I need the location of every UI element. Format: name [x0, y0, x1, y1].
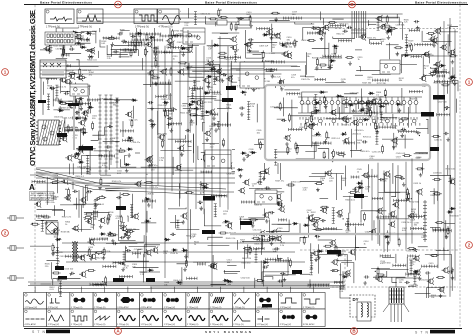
junction — [70, 74, 71, 75]
label IC ref 18 — [202, 230, 215, 234]
pin row — [405, 35, 408, 53]
junction — [385, 95, 386, 96]
junction — [90, 34, 91, 35]
wire — [427, 275, 429, 298]
junction — [157, 77, 158, 78]
svg-text:C319 33k: C319 33k — [46, 202, 56, 204]
wire — [385, 174, 408, 192]
resistor R304 — [120, 215, 122, 224]
junction — [126, 41, 127, 42]
resistor R315 — [369, 109, 371, 118]
transistor Q201 — [147, 69, 154, 76]
junction — [390, 29, 391, 30]
transistor Q502 — [244, 41, 251, 48]
wire — [169, 28, 171, 39]
ground — [102, 256, 106, 260]
ground — [374, 275, 378, 279]
junction — [70, 274, 71, 275]
pin row — [330, 24, 346, 27]
capacitor C613 — [364, 275, 369, 278]
wire — [372, 60, 391, 75]
flyback leads up — [396, 278, 420, 287]
resistor R315 — [31, 223, 40, 225]
wire — [305, 142, 316, 152]
ground — [451, 276, 455, 280]
capacitor C514 — [50, 42, 55, 45]
capacitor C311 — [153, 50, 158, 53]
ground — [314, 257, 318, 261]
svg-text:C209 33k: C209 33k — [396, 25, 406, 27]
section dashed line2 — [344, 250, 346, 292]
ground — [402, 182, 406, 186]
pin row — [345, 223, 363, 226]
ground — [271, 236, 275, 240]
wire — [254, 278, 256, 288]
margin connector — [7, 246, 24, 250]
capacitor C604 — [170, 233, 175, 236]
capacitor C415 — [197, 201, 202, 204]
bus wire bottom2 — [150, 286, 345, 288]
wire — [86, 187, 88, 201]
resistor R601 — [411, 43, 413, 52]
diode D602 — [396, 103, 402, 106]
resistor R509 — [279, 102, 281, 111]
wire — [208, 245, 230, 247]
junction — [321, 67, 322, 68]
transistor Q603 — [132, 213, 139, 220]
junction — [65, 77, 66, 78]
label IC ref 12 — [354, 194, 364, 198]
wire — [248, 43, 277, 52]
wire — [103, 99, 132, 100]
wire — [370, 39, 382, 44]
diode D705 — [136, 32, 142, 35]
junction — [336, 48, 337, 49]
transistor Q304 — [325, 170, 332, 177]
svg-text:R702 330: R702 330 — [222, 222, 232, 224]
transistor Q201 — [316, 29, 323, 36]
pin row — [381, 215, 397, 218]
ground — [315, 66, 319, 70]
bus wire vertical right — [389, 173, 391, 241]
diode D507 — [58, 101, 64, 104]
wire — [265, 257, 288, 275]
transistor Q504 — [266, 28, 273, 35]
capacitor C505 — [248, 38, 253, 41]
pin row — [307, 32, 325, 35]
resistor R605 — [312, 218, 321, 220]
transistor Q601 — [76, 145, 83, 152]
pin row — [243, 222, 253, 225]
connector CN202 — [105, 95, 108, 175]
ground — [51, 252, 55, 256]
svg-text:R306 4.7k: R306 4.7k — [57, 86, 67, 88]
diode D208 — [75, 117, 81, 120]
wire — [211, 284, 226, 286]
label IC ref 20 — [262, 304, 272, 308]
wire — [232, 170, 235, 172]
diode D602 — [149, 36, 155, 39]
resistor R207 — [259, 141, 261, 150]
module box — [70, 84, 88, 96]
svg-text:R612 1k: R612 1k — [337, 33, 346, 35]
svg-text:C311 330: C311 330 — [270, 107, 280, 109]
transistor Q201 — [75, 33, 82, 40]
wire — [393, 133, 395, 150]
transistor Q310 — [166, 37, 173, 44]
resistor R315 — [335, 244, 337, 253]
capacitor C704 — [183, 37, 188, 40]
oscillogram box B2 row2 — [47, 309, 70, 327]
transistor Q310 — [225, 222, 232, 229]
junction — [453, 52, 454, 53]
junction — [181, 45, 182, 46]
wire — [187, 8, 189, 18]
wire — [408, 285, 416, 287]
wire — [179, 10, 182, 12]
ground — [147, 203, 151, 207]
bus wire horizontal — [40, 65, 297, 67]
bus wire vertical — [227, 46, 229, 210]
DY horizontal coil — [361, 303, 362, 317]
resistor R416 — [121, 193, 130, 195]
wire — [340, 263, 342, 286]
wire — [353, 115, 371, 117]
diode D303 — [450, 207, 456, 210]
pin row — [339, 39, 352, 42]
resistor R511 — [384, 89, 386, 98]
wire — [382, 138, 413, 140]
svg-text:1 TP(ba) (V): 1 TP(ba) (V) — [280, 307, 292, 309]
transistor Q310 — [331, 259, 338, 266]
transistor Q701 — [379, 23, 386, 30]
junction — [262, 281, 263, 282]
resistor R601 — [377, 267, 379, 276]
resistor R612 — [42, 216, 51, 218]
ground — [405, 196, 409, 200]
pin row — [393, 264, 406, 267]
transistor Q201 — [307, 123, 314, 130]
diode D705 — [342, 275, 348, 278]
transistor Q504 — [180, 212, 187, 219]
wire — [207, 45, 233, 47]
pin row — [345, 97, 348, 107]
wire — [204, 209, 221, 226]
ground — [111, 42, 115, 46]
junction — [328, 137, 329, 138]
svg-text:R318 100: R318 100 — [450, 216, 460, 218]
label IC ref 16 — [222, 98, 233, 102]
resistor R511 — [108, 213, 110, 222]
capacitor C607 — [269, 211, 274, 214]
wire — [168, 79, 170, 98]
resistor R612 — [330, 270, 339, 272]
wire — [318, 239, 333, 241]
svg-text:2: 2 — [468, 243, 471, 248]
svg-text:STN: STN — [32, 330, 46, 334]
pin row — [398, 130, 416, 133]
bus wire vertical right — [377, 163, 379, 244]
diode D602 — [358, 186, 364, 189]
diode D507 — [386, 29, 392, 32]
wire — [337, 260, 352, 262]
svg-text:C514 47u: C514 47u — [272, 37, 282, 39]
pin row — [373, 102, 389, 105]
transistor Q601 — [242, 179, 249, 186]
pin row — [210, 113, 218, 116]
ground — [320, 37, 324, 41]
resistor R412 — [131, 119, 133, 128]
module box — [255, 190, 277, 204]
wire — [311, 23, 313, 24]
svg-text:R509 4.7k: R509 4.7k — [112, 181, 122, 183]
wire — [170, 221, 183, 223]
wire — [92, 127, 104, 135]
ground — [214, 128, 218, 132]
ground — [376, 130, 380, 134]
pin row — [50, 37, 53, 50]
wire — [344, 93, 357, 95]
ground — [170, 128, 174, 132]
capacitor C704 — [281, 119, 286, 122]
junction — [286, 46, 287, 47]
capacitor C708 — [415, 131, 420, 134]
junction — [283, 119, 284, 120]
resistor R706 — [398, 238, 400, 247]
wire — [444, 223, 455, 225]
transistor Q601 — [65, 154, 72, 161]
label IC ref 17 — [203, 196, 215, 201]
wire — [441, 27, 458, 32]
pin row — [163, 109, 173, 112]
wire — [139, 271, 160, 273]
ground — [242, 157, 246, 161]
junction — [98, 254, 99, 255]
wire — [52, 89, 54, 107]
svg-text:1 TP(ay) (V): 1 TP(ay) (V) — [233, 307, 245, 309]
junction — [250, 72, 251, 73]
wire — [145, 236, 147, 247]
capacitor C311 — [221, 73, 226, 76]
diode D202 — [403, 54, 409, 57]
wire — [300, 180, 322, 182]
resistor R706 — [67, 124, 69, 133]
resistor R416 — [241, 69, 250, 71]
svg-text:STN: STN — [415, 330, 429, 334]
wire — [362, 89, 390, 104]
diode D404 — [341, 133, 347, 136]
ground — [280, 87, 284, 91]
junction — [102, 281, 103, 282]
diode D303 — [190, 100, 196, 103]
junction — [187, 34, 188, 35]
resistor R601 — [449, 55, 458, 57]
oscillogram box B10 row1 — [232, 293, 255, 310]
svg-text:2 TP(n) (V): 2 TP(n) (V) — [233, 324, 244, 326]
ground — [276, 201, 280, 205]
svg-text:C410 220: C410 220 — [425, 55, 435, 57]
wire — [302, 92, 328, 101]
wire — [66, 66, 99, 68]
wire — [105, 187, 130, 189]
bus wire vertical — [151, 33, 153, 209]
wire — [348, 213, 350, 231]
svg-text:1 TP(av) (V): 1 TP(av) (V) — [71, 324, 83, 326]
transistor Q603 — [194, 99, 201, 106]
wire — [100, 174, 111, 176]
pin row — [99, 155, 115, 158]
wire — [135, 28, 137, 52]
transistor Q504 — [177, 145, 184, 152]
pin row — [190, 87, 203, 90]
junction — [145, 197, 146, 198]
ground — [207, 84, 211, 88]
capacitor C209 — [114, 99, 119, 102]
wire — [430, 66, 431, 68]
wire — [262, 60, 264, 63]
pin row — [32, 180, 45, 183]
bus wire vertical — [179, 49, 181, 198]
wire — [185, 28, 187, 37]
wire — [52, 210, 65, 216]
wire — [291, 115, 314, 117]
pin row — [314, 94, 317, 112]
wire — [317, 244, 319, 273]
wire — [126, 229, 140, 231]
wire — [73, 42, 91, 44]
resistor R416 — [307, 39, 316, 41]
wire — [197, 146, 200, 159]
bus wire top — [76, 17, 398, 19]
wire — [168, 208, 186, 209]
bus wire horizontal — [40, 73, 281, 75]
pin row — [59, 281, 62, 297]
wire — [53, 109, 70, 111]
transistor Q304 — [342, 137, 349, 144]
wire — [430, 191, 438, 200]
transistor Q502 — [73, 97, 80, 104]
pin row — [154, 51, 172, 54]
ground — [352, 109, 356, 113]
resistor array RA101 — [130, 33, 161, 36]
ground — [262, 176, 266, 180]
oscillogram box B3 row2 — [70, 309, 93, 327]
junction — [324, 208, 325, 209]
pin row — [257, 27, 270, 30]
wire — [78, 190, 80, 218]
wire — [436, 250, 449, 252]
wire — [218, 38, 231, 40]
resistor R304 — [249, 219, 258, 221]
svg-text:C604 2.2k: C604 2.2k — [62, 117, 72, 119]
svg-text:C205 4.7k: C205 4.7k — [161, 99, 171, 101]
diode D602 — [71, 31, 77, 34]
label IC ref 11 — [327, 250, 341, 254]
wire — [91, 131, 99, 140]
wire — [272, 223, 292, 225]
ground — [434, 68, 438, 72]
wire — [254, 143, 263, 145]
wire — [252, 78, 265, 80]
transistor Q701 — [146, 155, 153, 162]
wire — [94, 151, 110, 170]
wire — [245, 58, 263, 71]
wire — [212, 32, 240, 34]
pin row — [234, 52, 237, 62]
svg-text:2 TP(ap) (V): 2 TP(ap) (V) — [48, 324, 60, 326]
capacitor C302 — [167, 117, 172, 120]
wire — [321, 57, 342, 59]
wire — [106, 242, 137, 244]
wire — [114, 44, 140, 46]
wire — [53, 205, 55, 216]
resistor R509 — [79, 67, 81, 76]
ground — [199, 206, 203, 210]
label IC ref 8 — [113, 278, 124, 282]
svg-text:3 TP(mm) (V): 3 TP(mm) (V) — [135, 27, 149, 29]
wire — [406, 257, 408, 273]
junction — [79, 159, 80, 160]
wire — [235, 151, 237, 153]
wire — [196, 107, 198, 126]
resistor R306 — [288, 113, 290, 122]
resistor R203 — [249, 15, 251, 24]
sheet marker 1 left — [2, 69, 9, 76]
wire — [135, 38, 137, 49]
wire — [424, 74, 435, 75]
wire — [76, 60, 79, 66]
pin row — [408, 255, 416, 258]
capacitor C209 — [69, 48, 74, 51]
svg-text:C302 47u: C302 47u — [129, 119, 139, 121]
wire — [188, 134, 192, 146]
resistor R702 — [219, 232, 228, 234]
oscillogram box B12 row1 — [279, 293, 302, 310]
junction — [220, 9, 221, 10]
wire — [260, 236, 262, 255]
bus wire right — [437, 29, 439, 268]
ground — [205, 137, 209, 141]
ground — [285, 142, 289, 146]
ground — [400, 133, 404, 137]
pin row — [187, 277, 197, 280]
wire — [342, 96, 344, 113]
svg-text:2 TP(av) (V): 2 TP(av) (V) — [210, 307, 222, 309]
connector CN201 — [99, 95, 102, 175]
ground — [125, 169, 129, 173]
bus wire vertical — [157, 46, 159, 186]
wire — [133, 267, 158, 269]
transistor Q603 — [322, 24, 329, 31]
pin row — [129, 44, 145, 47]
ground — [150, 107, 154, 111]
wire — [328, 43, 330, 68]
wire — [202, 142, 219, 144]
transistor Q504 — [284, 134, 291, 141]
svg-text:R702 330: R702 330 — [410, 202, 420, 204]
resistor R706 — [59, 102, 68, 104]
wire — [57, 101, 79, 118]
junction — [326, 209, 327, 210]
junction — [225, 222, 226, 223]
pin row — [413, 271, 416, 284]
junction — [247, 157, 248, 158]
capacitor C505 — [120, 236, 125, 239]
wire — [65, 127, 78, 132]
wire — [262, 260, 264, 286]
svg-text:1 TP(ba) (V): 1 TP(ba) (V) — [164, 324, 176, 326]
capacitor C410 — [380, 70, 385, 73]
